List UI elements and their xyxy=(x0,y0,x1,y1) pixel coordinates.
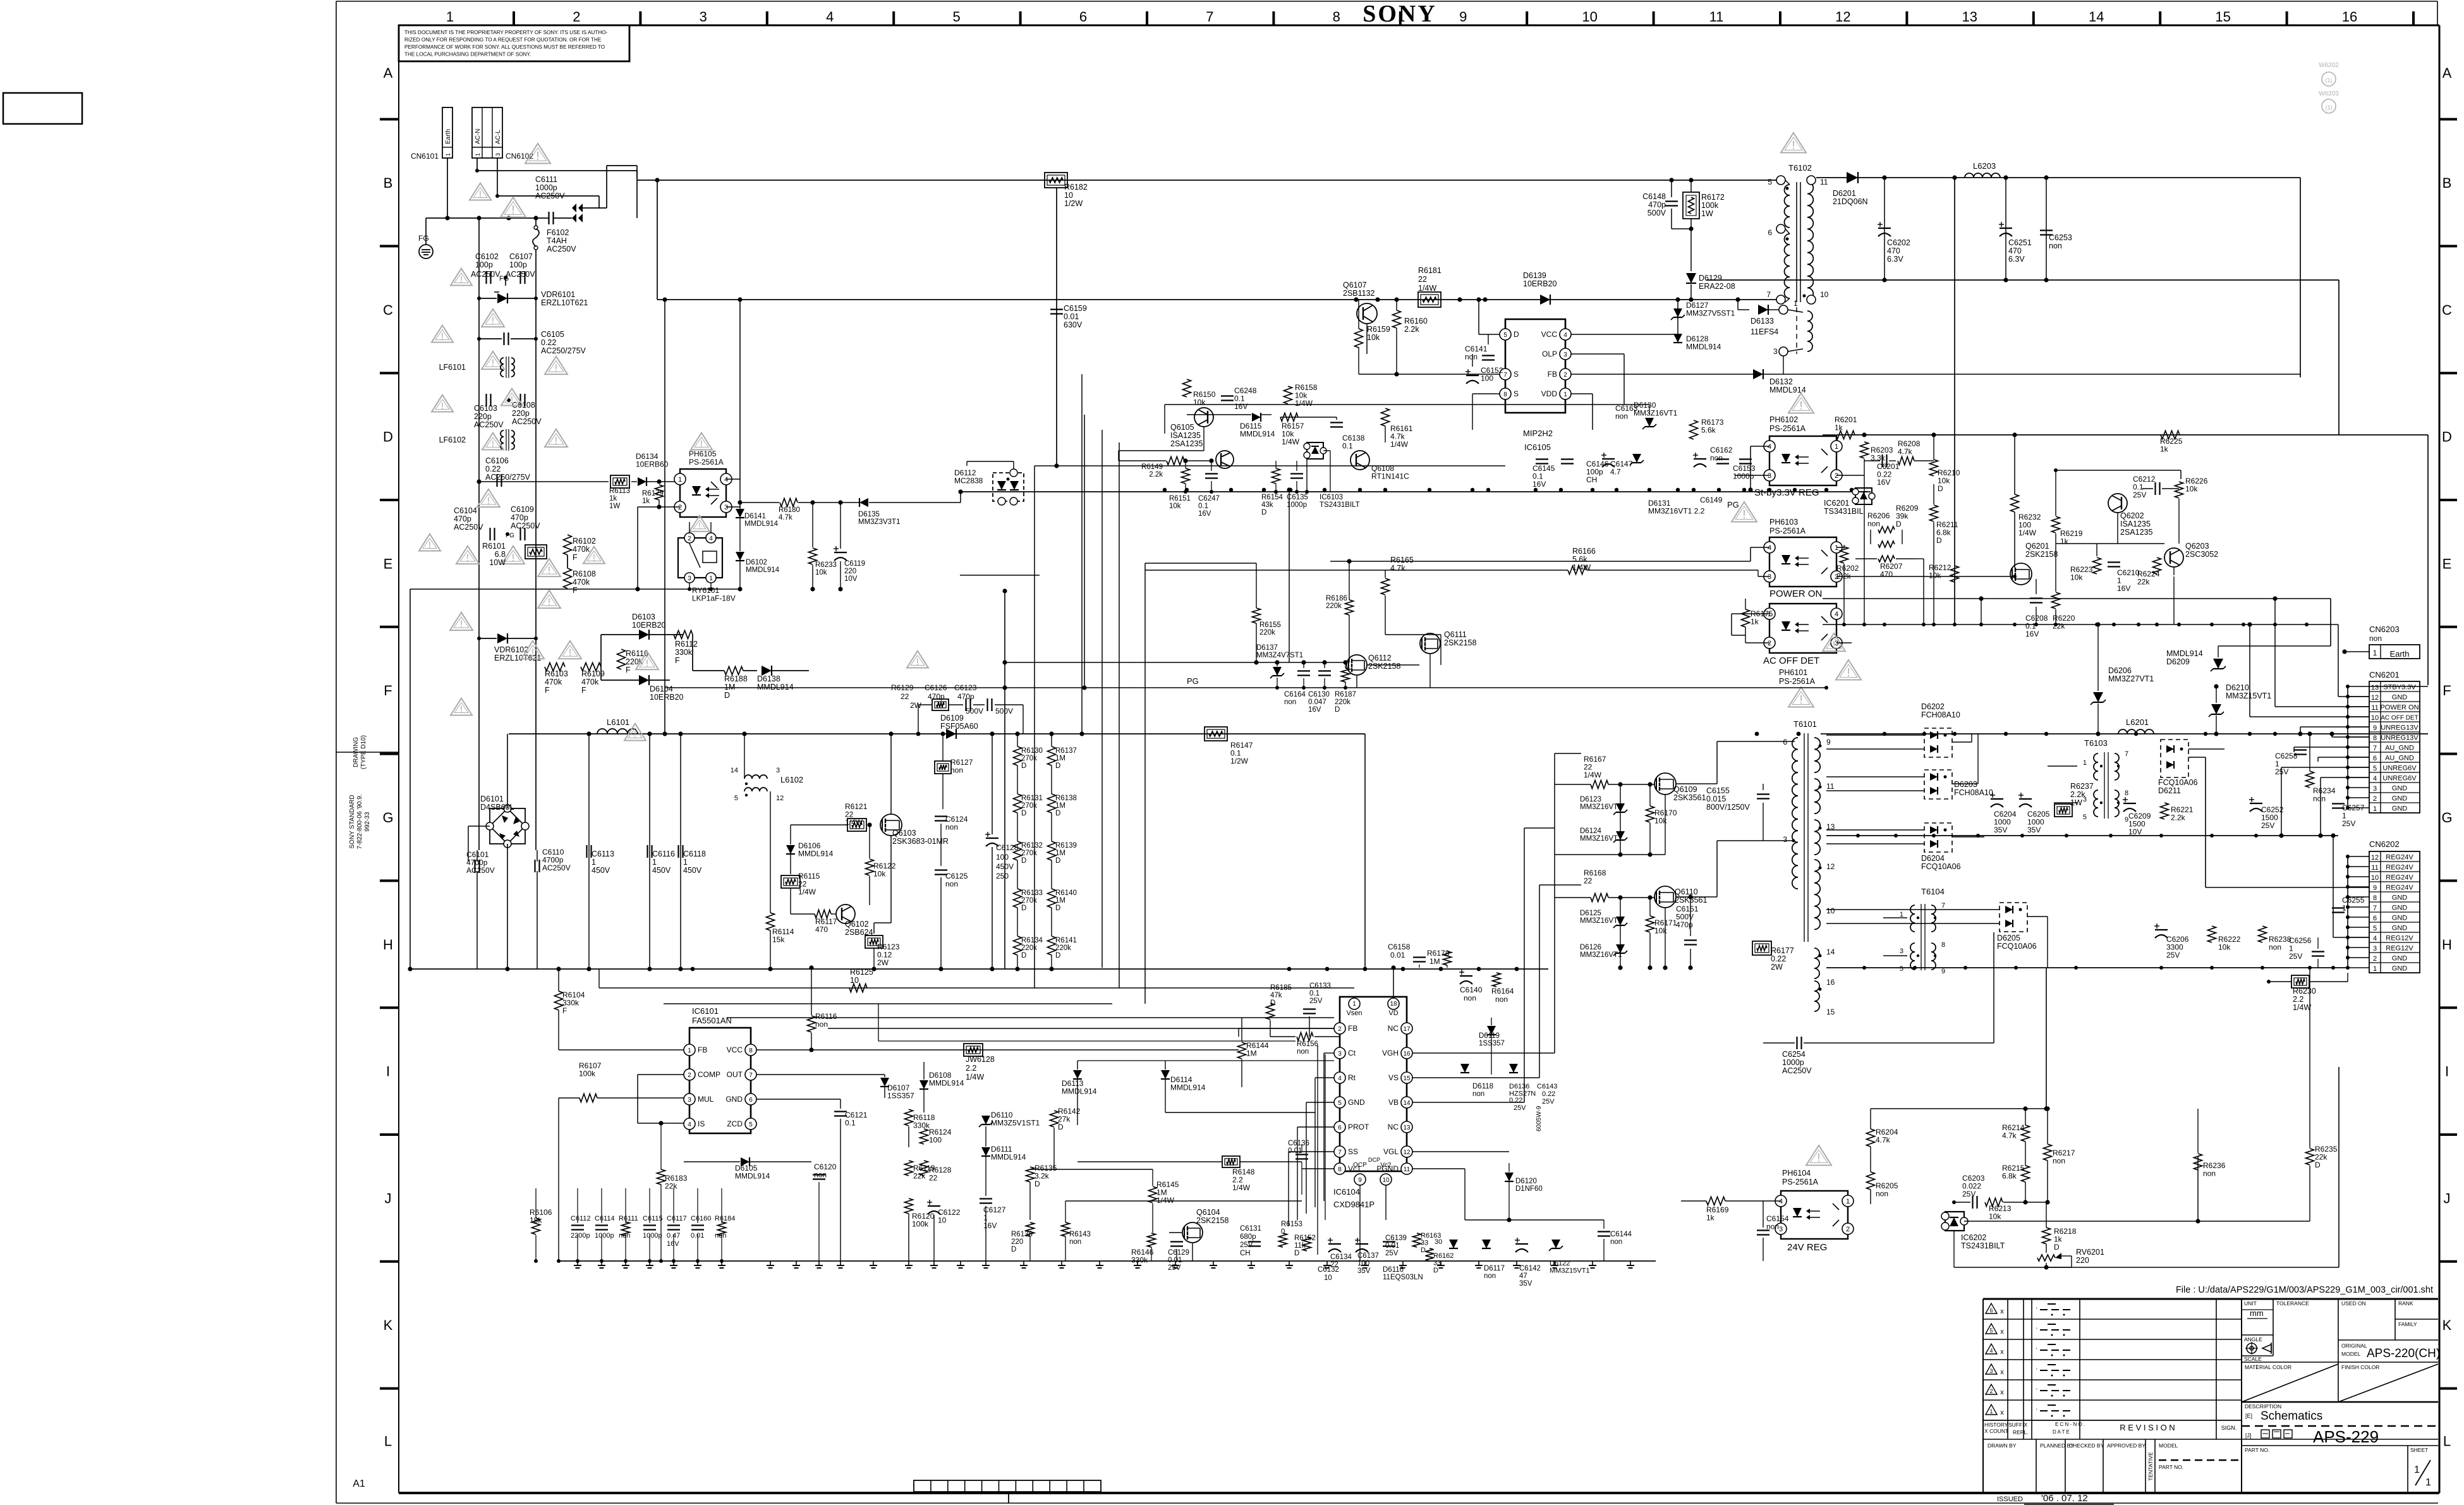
svg-text:9: 9 xyxy=(1459,9,1467,25)
svg-text:D: D xyxy=(1936,536,1942,545)
svg-text:1/4W: 1/4W xyxy=(1232,1183,1251,1192)
svg-text:11: 11 xyxy=(1826,782,1835,791)
svg-text:7: 7 xyxy=(1766,290,1771,299)
bus pads top xyxy=(691,732,2335,972)
svg-text:22: 22 xyxy=(901,692,909,701)
svg-text:35V: 35V xyxy=(2027,826,2041,834)
svg-text:7: 7 xyxy=(2373,745,2377,752)
svg-text:0: 0 xyxy=(1281,1228,1285,1236)
svg-text:12: 12 xyxy=(1826,862,1835,871)
svg-text:0.22: 0.22 xyxy=(1542,1090,1555,1098)
diode D6132 xyxy=(1753,369,1763,379)
caps row under Q6112 xyxy=(1284,660,1356,714)
svg-text:30: 30 xyxy=(1435,1238,1442,1246)
wire gnd to CN pin12 xyxy=(2338,625,2339,697)
svg-text:470: 470 xyxy=(2008,247,2022,255)
svg-text:ISSUED: ISSUED xyxy=(1997,1496,2023,1503)
svg-text:2.2k: 2.2k xyxy=(2070,790,2085,799)
svg-text:TS2431BILT: TS2431BILT xyxy=(1320,501,1360,509)
svg-text:25V: 25V xyxy=(2166,951,2180,960)
wire 24v bottom xyxy=(1953,1231,1955,1267)
svg-text:!: ! xyxy=(700,439,703,449)
svg-text:VS: VS xyxy=(1388,1073,1399,1082)
fuse F6102 xyxy=(533,216,576,277)
diode D6128 xyxy=(1673,334,1682,343)
wire relay bottom line xyxy=(410,588,740,590)
resistor R6182 xyxy=(1045,173,1067,188)
svg-text:R6186: R6186 xyxy=(1326,595,1347,602)
svg-text:3: 3 xyxy=(2373,945,2377,953)
svg-text:6.3V: 6.3V xyxy=(1887,255,1903,264)
svg-text:35V: 35V xyxy=(1519,1280,1532,1288)
svg-text:Vsen: Vsen xyxy=(1346,1009,1362,1017)
resistor R6224 xyxy=(2153,558,2161,574)
svg-text:3: 3 xyxy=(1779,1226,1783,1233)
svg-text:10V: 10V xyxy=(844,575,858,583)
warning triangle xyxy=(432,326,453,343)
svg-text:0.01: 0.01 xyxy=(1390,951,1405,960)
resistor R6180 xyxy=(780,499,798,507)
svg-text:1: 1 xyxy=(2083,759,2087,767)
svg-text:10: 10 xyxy=(850,976,859,985)
svg-text:C6155: C6155 xyxy=(1706,786,1730,795)
svg-text:470p: 470p xyxy=(511,513,528,522)
warning triangle xyxy=(451,269,472,286)
wire bridge connections xyxy=(468,734,537,969)
svg-text:11: 11 xyxy=(1709,9,1724,25)
svg-text:D A T E: D A T E xyxy=(2053,1429,2070,1435)
svg-text:THE LOCAL PURCHASING DEPARTMEN: THE LOCAL PURCHASING DEPARTMENT OF SONY. xyxy=(404,52,531,58)
svg-text:IC6201: IC6201 xyxy=(1824,499,1849,508)
resistor R6186 xyxy=(1345,600,1354,615)
svg-text:C6253: C6253 xyxy=(2049,233,2072,242)
optocoupler PH6104 xyxy=(1781,1191,1848,1239)
svg-text:4.7k: 4.7k xyxy=(2002,1131,2017,1140)
svg-text:1: 1 xyxy=(1989,1408,1993,1415)
svg-text:11: 11 xyxy=(2371,864,2378,872)
svg-text:11k: 11k xyxy=(1294,1242,1306,1250)
svg-text:1/4W: 1/4W xyxy=(798,887,816,896)
resistor R6124 xyxy=(920,1129,928,1144)
resistor R6112 xyxy=(674,631,698,671)
svg-text:C6134: C6134 xyxy=(1330,1253,1352,1261)
resistor R6236 xyxy=(2194,1154,2202,1170)
svg-text:25V: 25V xyxy=(1542,1098,1555,1106)
svg-text:non: non xyxy=(2203,1169,2216,1178)
svg-text:MMDL914: MMDL914 xyxy=(1686,343,1721,351)
svg-text:10V: 10V xyxy=(2128,827,2142,836)
svg-text:7: 7 xyxy=(1503,372,1507,379)
svg-text:1: 1 xyxy=(592,858,596,867)
svg-text:FCQ10A06: FCQ10A06 xyxy=(1921,862,1961,871)
svg-text:470p: 470p xyxy=(957,692,974,701)
wire 3.3v line xyxy=(1836,434,2428,436)
svg-text:': ' xyxy=(2036,1367,2037,1374)
resistor R6121 xyxy=(847,819,866,831)
wire ph6102 left pins xyxy=(1751,446,1769,447)
wire long vertical C xyxy=(1289,490,1290,662)
svg-text:PH6101: PH6101 xyxy=(1779,668,1807,677)
svg-text:22k: 22k xyxy=(2053,622,2065,631)
svg-text:4: 4 xyxy=(2373,775,2377,783)
wire y1930 ocp xyxy=(1065,1200,1302,1202)
svg-text:D: D xyxy=(1021,762,1026,770)
wire FB ladder lines xyxy=(664,1004,1334,1037)
svg-text:!: ! xyxy=(555,436,557,446)
svg-text:AC250V: AC250V xyxy=(466,866,495,875)
svg-text:!: ! xyxy=(466,552,469,563)
resistor R6153 xyxy=(1279,1233,1287,1247)
resistor R6173 xyxy=(1690,420,1698,439)
svg-text:F6102: F6102 xyxy=(547,228,569,237)
svg-text:non: non xyxy=(1284,698,1296,706)
wire unreg13 pins xyxy=(2300,726,2369,728)
svg-text:D: D xyxy=(1035,1179,1040,1188)
svg-text:D: D xyxy=(1058,1123,1064,1131)
svg-text:R6187: R6187 xyxy=(1335,691,1356,698)
svg-text:non: non xyxy=(1472,1090,1484,1098)
diode D6119 xyxy=(1487,1026,1496,1035)
svg-text:1: 1 xyxy=(2425,1477,2431,1488)
svg-text:0.01: 0.01 xyxy=(1288,1147,1302,1155)
svg-text:1k: 1k xyxy=(2160,445,2169,454)
svg-text:!: ! xyxy=(492,439,494,449)
svg-text:4: 4 xyxy=(2373,935,2377,942)
svg-text:D6133: D6133 xyxy=(1751,317,1774,326)
svg-text:2: 2 xyxy=(678,504,682,511)
diode D6120 xyxy=(1505,1173,1514,1181)
svg-text:2: 2 xyxy=(1563,372,1567,379)
svg-text:R6103: R6103 xyxy=(545,669,568,678)
resistor R6230 xyxy=(2269,981,2291,982)
svg-text:1/4W: 1/4W xyxy=(966,1073,984,1082)
transistor Q6203 xyxy=(2164,548,2183,567)
svg-text:22: 22 xyxy=(1418,275,1427,284)
svg-text:25V: 25V xyxy=(1240,1241,1253,1249)
svg-text:AC250V: AC250V xyxy=(471,270,501,279)
svg-text:COMP: COMP xyxy=(698,1070,720,1079)
svg-text:16V: 16V xyxy=(1308,706,1321,714)
svg-text:VDR6102: VDR6102 xyxy=(494,645,528,654)
svg-text:100p: 100p xyxy=(475,260,493,269)
svg-text:1: 1 xyxy=(683,858,688,867)
svg-text:25V: 25V xyxy=(1962,1190,1975,1198)
svg-text:D6102: D6102 xyxy=(746,559,767,566)
svg-text:D: D xyxy=(1514,330,1519,339)
svg-text:9: 9 xyxy=(1358,1177,1362,1184)
svg-text:2W: 2W xyxy=(910,701,922,710)
svg-text:5: 5 xyxy=(2083,813,2087,821)
capacitor C6116 xyxy=(649,734,650,969)
svg-text:PS-2561A: PS-2561A xyxy=(1769,527,1806,535)
svg-text:APS-220(CH): APS-220(CH) xyxy=(2367,1347,2440,1360)
resistor R6127 xyxy=(935,761,951,774)
resistor R6142 xyxy=(1050,1111,1059,1127)
choke LF6102 xyxy=(439,429,514,451)
svg-text:0.1: 0.1 xyxy=(1342,442,1353,451)
resistor R6156 xyxy=(1297,1033,1313,1041)
svg-text:1000p: 1000p xyxy=(643,1232,662,1240)
svg-text:4: 4 xyxy=(1768,443,1771,451)
svg-text:3: 3 xyxy=(2373,785,2377,793)
svg-text:1: 1 xyxy=(1793,299,1798,308)
svg-text:10: 10 xyxy=(1820,290,1829,299)
svg-text:D: D xyxy=(1938,484,1943,493)
svg-text:R6178: R6178 xyxy=(1427,949,1450,958)
svg-text:ANGLE: ANGLE xyxy=(2244,1336,2262,1343)
svg-text:REPL.: REPL. xyxy=(2013,1429,2029,1435)
resistor R6166 xyxy=(1568,566,1587,575)
svg-text:ERZL10T621: ERZL10T621 xyxy=(541,298,588,307)
warning triangle PH6104 xyxy=(1806,1145,1831,1166)
svg-text:GND: GND xyxy=(2392,955,2408,963)
potentiometer RV6201 xyxy=(2037,1244,2104,1267)
svg-text:35V: 35V xyxy=(1994,826,2007,834)
svg-text:non: non xyxy=(1876,1190,1888,1198)
diode D6133 xyxy=(1758,305,1768,315)
svg-text:G: G xyxy=(2441,810,2452,826)
svg-text:T6102: T6102 xyxy=(1788,163,1812,173)
resistor R6179 xyxy=(655,485,664,500)
svg-text:8: 8 xyxy=(2373,894,2377,902)
svg-text:STBY3.3V: STBY3.3V xyxy=(2383,684,2416,692)
resistor R6149b xyxy=(1167,457,1184,465)
svg-text:UNIT: UNIT xyxy=(2244,1300,2257,1307)
svg-text:R6130: R6130 xyxy=(1021,747,1043,755)
svg-text:1/4W: 1/4W xyxy=(1295,399,1313,408)
svg-text:T4AH: T4AH xyxy=(547,236,567,245)
svg-text:0.01: 0.01 xyxy=(691,1232,704,1240)
resistor R6109 xyxy=(545,663,605,695)
svg-text:Q6102: Q6102 xyxy=(845,920,869,929)
mosfet Q6201 xyxy=(2010,563,2032,585)
svg-text:non: non xyxy=(2369,634,2382,643)
svg-text:UNREG13V: UNREG13V xyxy=(2381,734,2418,742)
svg-text:C6139: C6139 xyxy=(1385,1234,1407,1242)
svg-text:470: 470 xyxy=(815,925,828,934)
resistor R6155 xyxy=(1253,608,1261,623)
svg-text:VD: VD xyxy=(1388,1009,1398,1017)
resistor R6170 xyxy=(1646,806,1654,822)
svg-text:220: 220 xyxy=(1011,1238,1023,1246)
svg-text:T6104: T6104 xyxy=(1921,887,1945,896)
svg-text:1: 1 xyxy=(2342,904,2346,913)
svg-text:1M: 1M xyxy=(1246,1049,1257,1058)
wire ct feed xyxy=(1077,1060,1334,1061)
wire long vertical A xyxy=(1034,466,1035,988)
wire AC-L down xyxy=(497,158,498,196)
svg-text:CN6101: CN6101 xyxy=(411,152,439,161)
svg-text:L6201: L6201 xyxy=(2126,717,2149,727)
svg-text:C6117: C6117 xyxy=(667,1215,687,1222)
diode D6141 xyxy=(736,509,744,518)
resistor R6203 xyxy=(1860,442,1869,458)
svg-text:1/4W: 1/4W xyxy=(1390,440,1409,449)
svg-text:1M: 1M xyxy=(1055,755,1065,762)
svg-text:7: 7 xyxy=(749,1072,753,1079)
svg-text:R6154: R6154 xyxy=(1261,494,1283,501)
svg-text:GND: GND xyxy=(2392,965,2408,973)
svg-text:4: 4 xyxy=(1768,544,1771,552)
svg-text:non: non xyxy=(1069,1238,1081,1246)
svg-text:3: 3 xyxy=(688,1097,691,1104)
svg-text:GND: GND xyxy=(2392,785,2408,793)
svg-text:FAMILY: FAMILY xyxy=(2398,1321,2417,1327)
svg-text:D6103: D6103 xyxy=(632,612,655,621)
wire aux long line2 xyxy=(878,1040,1296,1042)
svg-text:REG24V: REG24V xyxy=(2386,874,2413,882)
svg-text:PS-2561A: PS-2561A xyxy=(1782,1178,1819,1186)
wire fb right link xyxy=(1964,1221,2198,1222)
svg-text:5: 5 xyxy=(1900,965,1903,973)
svg-text:!: ! xyxy=(698,521,701,531)
resistor R6185 xyxy=(1266,1003,1275,1020)
svg-text:25V: 25V xyxy=(1514,1104,1526,1112)
svg-text:16: 16 xyxy=(2342,9,2357,25)
svg-text:Rt: Rt xyxy=(1348,1073,1356,1082)
resistor R6161 xyxy=(1381,408,1390,426)
svg-text:MMDL914: MMDL914 xyxy=(798,850,834,858)
svg-text:100: 100 xyxy=(1481,374,1493,383)
capacitor C6118 xyxy=(680,734,681,969)
svg-text:1M: 1M xyxy=(1055,897,1065,905)
svg-text:AC250V: AC250V xyxy=(547,245,576,253)
svg-text:1000p: 1000p xyxy=(1287,501,1307,509)
IC6101 FA5501AN xyxy=(684,1006,756,1133)
svg-text:D6203: D6203 xyxy=(1954,780,1977,789)
capacitor C6141 xyxy=(1482,355,1495,356)
svg-text:MODEL: MODEL xyxy=(2159,1442,2178,1449)
capacitor C6124 xyxy=(935,815,947,817)
svg-text:RIZED ONLY FOR RESPONDING TO A: RIZED ONLY FOR RESPONDING TO A REQUEST F… xyxy=(404,37,602,43)
svg-text:C6202: C6202 xyxy=(1887,238,1910,247)
svg-text:5.6k: 5.6k xyxy=(1701,426,1716,435)
svg-text:non: non xyxy=(945,823,958,832)
svg-text:2SA1235: 2SA1235 xyxy=(2120,528,2152,537)
svg-text:2SK2158: 2SK2158 xyxy=(1444,638,1476,647)
capacitor C6206 xyxy=(2155,929,2168,930)
svg-text:8: 8 xyxy=(1338,1166,1342,1173)
svg-text:1k: 1k xyxy=(1835,423,1843,432)
wire y1664 secondary aux xyxy=(1630,733,1631,734)
svg-text:F: F xyxy=(573,553,578,562)
svg-text:33: 33 xyxy=(1433,1260,1441,1267)
wire discharge cluster xyxy=(1002,588,1441,969)
wire 24v loop right xyxy=(2046,1267,2339,1268)
svg-text:6: 6 xyxy=(2373,915,2377,922)
svg-text:4.7k: 4.7k xyxy=(779,514,792,521)
svg-text:D6136: D6136 xyxy=(1509,1083,1529,1090)
svg-text:MMDL914: MMDL914 xyxy=(1062,1087,1097,1096)
wire bus2 xyxy=(657,299,1776,300)
svg-text:APS-229: APS-229 xyxy=(2313,1427,2379,1446)
svg-text:6.8k: 6.8k xyxy=(2002,1172,2017,1181)
resistor R6218 xyxy=(2042,1228,2051,1244)
svg-text:1/4W: 1/4W xyxy=(1584,771,1602,779)
svg-text:ISA1235: ISA1235 xyxy=(2120,520,2151,528)
svg-text:D: D xyxy=(1335,706,1340,714)
svg-text:': ' xyxy=(2036,1327,2037,1333)
svg-text:ERZL10T621: ERZL10T621 xyxy=(494,654,541,662)
svg-text:11EFS4: 11EFS4 xyxy=(1751,327,1778,336)
svg-text:!: ! xyxy=(460,704,463,715)
svg-text:1: 1 xyxy=(1835,544,1838,552)
svg-text:11EQS03LN: 11EQS03LN xyxy=(1383,1274,1423,1281)
svg-text:220p: 220p xyxy=(512,409,530,418)
svg-text:PERFORMANCE OF WORK FOR SONY.: PERFORMANCE OF WORK FOR SONY. ALL QUESTI… xyxy=(404,44,605,50)
diode D6129 xyxy=(1686,273,1696,283)
svg-text:GND: GND xyxy=(2392,694,2408,702)
resistor R6237 xyxy=(2054,804,2072,817)
svg-text:D6211: D6211 xyxy=(2158,786,2181,795)
svg-text:!: ! xyxy=(487,496,490,506)
svg-text:5.6k: 5.6k xyxy=(1572,555,1587,564)
resistor R6233 xyxy=(809,548,817,564)
svg-text:D6119: D6119 xyxy=(1479,1032,1500,1040)
choke LF6101 xyxy=(439,356,514,378)
svg-text:C6251: C6251 xyxy=(2008,238,2032,247)
svg-text:B: B xyxy=(2443,175,2452,191)
svg-text:220k: 220k xyxy=(1055,944,1071,952)
resistor R6219 xyxy=(2052,516,2060,533)
wire primary gnd bus xyxy=(961,488,1871,492)
svg-text:'06 . 07. 12: '06 . 07. 12 xyxy=(2041,1493,2088,1504)
svg-text:25V: 25V xyxy=(1168,1264,1181,1272)
svg-text:1: 1 xyxy=(2414,1465,2420,1475)
svg-text:VDR6101: VDR6101 xyxy=(541,290,575,299)
wire unreg6v pins xyxy=(2281,767,2369,768)
capacitor C6128 xyxy=(986,838,998,839)
svg-text:R6165: R6165 xyxy=(1390,556,1414,564)
svg-text:!: ! xyxy=(916,657,919,667)
svg-text:UNREG6V: UNREG6V xyxy=(2382,765,2417,772)
svg-text:R6233: R6233 xyxy=(815,561,837,569)
wire 24v fb top xyxy=(1871,1108,2046,1109)
optocoupler PH6101 xyxy=(1769,604,1836,653)
svg-text:non: non xyxy=(2269,943,2281,952)
svg-text:R E V I S I O N: R E V I S I O N xyxy=(2120,1423,2175,1432)
title block xyxy=(1983,1299,2440,1493)
warning triangle xyxy=(432,395,453,412)
svg-text:AC250/275V: AC250/275V xyxy=(541,346,586,355)
svg-text:AC250V: AC250V xyxy=(542,863,571,872)
resistor R6163 xyxy=(1413,1233,1421,1247)
svg-text:12: 12 xyxy=(1835,9,1850,25)
diode D6105 xyxy=(741,1157,750,1166)
svg-text:5: 5 xyxy=(1503,332,1507,339)
svg-text:8: 8 xyxy=(1333,9,1340,25)
svg-text:R6164: R6164 xyxy=(1491,987,1514,996)
mosfet Q6110 xyxy=(1654,886,1676,908)
svg-text:R6141: R6141 xyxy=(1055,937,1077,944)
wire stby secondary top bus xyxy=(1816,177,2300,178)
svg-text:IC6101: IC6101 xyxy=(692,1006,719,1016)
wire long vertical B xyxy=(1081,374,1083,734)
svg-text:470: 470 xyxy=(1887,247,1900,255)
warning triangle xyxy=(583,547,605,564)
diode pack D6112 xyxy=(954,461,1024,505)
wire ph6102 right pins xyxy=(1836,435,1837,446)
svg-text:2: 2 xyxy=(1989,1388,1993,1394)
svg-text:4: 4 xyxy=(1989,1348,1993,1354)
wire prot link xyxy=(1165,1112,1315,1113)
svg-text:3: 3 xyxy=(776,767,780,774)
warning triangle C6109 xyxy=(502,546,525,564)
svg-text:VCC: VCC xyxy=(727,1045,743,1054)
svg-text:470k: 470k xyxy=(545,678,562,686)
svg-text:S: S xyxy=(1514,389,1519,398)
warning triangle F6102 xyxy=(501,197,526,217)
